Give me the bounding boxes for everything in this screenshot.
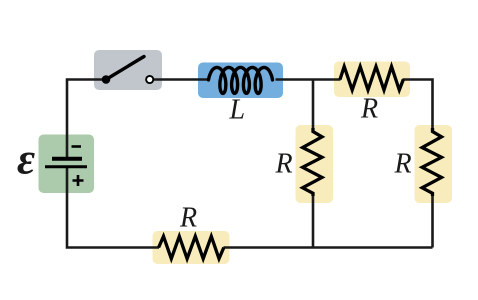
svg-text:R: R [275,148,293,179]
wire middle branch top [312,80,315,130]
wire right branch bottom [431,195,434,248]
wire inductor to resistor top [276,78,341,81]
wire resistor top to right corner down [403,80,433,130]
svg-text:R: R [394,148,412,179]
wire switch to inductor [154,78,210,81]
resistor R top-right zigzag [340,67,403,91]
svg-text:R: R [360,94,378,125]
battery plus sign [73,175,84,186]
resistor R right vertical zigzag [422,128,441,196]
svg-text:ε: ε [17,135,35,184]
switch S open contact [146,76,153,83]
resistor R top-right highlight box [334,62,410,98]
wire middle branch bottom [312,195,315,248]
svg-text:L: L [229,94,246,125]
resistor R middle vertical zigzag [303,128,322,196]
resistor R bottom zigzag [159,236,224,258]
inductor L coil [209,67,273,93]
switch S lever [106,57,144,80]
battery positive plate (long) [45,165,87,168]
wire top-left: corner to switch [67,80,106,158]
switch S highlight box [94,50,162,90]
wire bottom right [224,246,433,249]
resistor R middle highlight box [296,125,334,203]
battery highlight box [39,135,95,194]
inductor L highlight box [198,63,283,99]
resistor R bottom highlight box [153,231,230,264]
svg-text:R: R [179,202,197,233]
battery negative plate (short) [52,157,82,161]
switch S pivot dot [102,75,111,84]
battery minus sign [72,145,82,148]
resistor R right highlight box [415,125,453,203]
wire battery to bottom resistor [67,167,159,248]
